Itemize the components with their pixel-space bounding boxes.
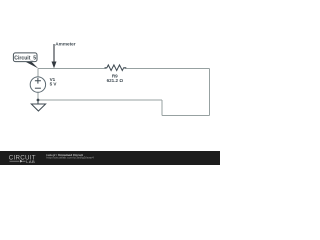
footer logo LAB line	[10, 160, 20, 162]
svg-text:Ammeter: Ammeter	[55, 42, 75, 47]
node flag Circuit_5 pointer	[25, 61, 39, 68]
voltage source V1	[30, 77, 45, 92]
ground	[37, 100, 39, 104]
node junction dot	[37, 99, 40, 102]
wire source top lead	[37, 69, 39, 78]
ammeter arrow	[53, 44, 55, 63]
resistor R9	[105, 65, 127, 71]
wire top: node A to resistor left	[38, 68, 107, 70]
wire top: resistor right to top-right corner	[125, 68, 210, 70]
wire right vertical	[209, 69, 211, 116]
svg-text:5 V: 5 V	[50, 82, 58, 87]
wire bottom-left horizontal	[38, 99, 162, 101]
wire source bottom lead	[37, 92, 39, 100]
svg-text:Circuit_5: Circuit_5	[14, 55, 36, 61]
footer bar	[0, 151, 220, 165]
wire step vertical	[161, 100, 163, 116]
svg-text:621.2 Ω: 621.2 Ω	[107, 78, 124, 83]
svg-text:http://circuitlab.com/c/3zdfg5: http://circuitlab.com/c/3zdfg5/awp4	[46, 156, 94, 160]
svg-text:LAB: LAB	[26, 159, 35, 164]
node flag Circuit_5 box	[13, 53, 37, 62]
wire bottom-right horizontal	[162, 115, 210, 117]
